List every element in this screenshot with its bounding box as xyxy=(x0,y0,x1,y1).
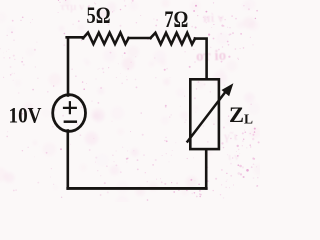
voltage source V circle xyxy=(53,95,86,132)
wire: left vertical top (from top-left corner down to source top) xyxy=(67,37,70,95)
ZL arrowhead xyxy=(222,84,232,95)
resistor R1 (5Ω zigzag) xyxy=(83,33,129,44)
wire: left vertical bottom (source bottom to bottom-left corner) xyxy=(67,131,70,189)
wire: R2 to top-right corner and down to ZL top xyxy=(195,39,207,78)
bleed-through text top-right xyxy=(60,1,239,163)
svg-text:5Ω: 5Ω xyxy=(87,3,111,28)
svg-text:от іо: от іо xyxy=(196,48,227,65)
load ZL rectangle xyxy=(190,79,219,149)
plus sign inside source xyxy=(64,102,76,113)
svg-text:иὶ ν: иὶ ν xyxy=(203,10,224,25)
svg-text:ττμ ν: ττμ ν xyxy=(60,1,84,13)
svg-text:γ῀ι: γ῀ι xyxy=(223,129,238,143)
wire: between R1 and R2 xyxy=(129,37,151,40)
resistor R2 (7Ω zigzag) xyxy=(151,33,196,44)
svg-text:ι ν: ι ν xyxy=(228,151,239,163)
wire: ZL bottom to bottom-right corner xyxy=(205,150,208,188)
svg-text:7Ω: 7Ω xyxy=(164,7,188,32)
wire: top-left horizontal to R1 xyxy=(67,36,83,40)
svg-text:10V: 10V xyxy=(9,102,42,127)
wire: bottom horizontal xyxy=(68,187,206,190)
minus sign inside source xyxy=(65,120,76,123)
ZL variable arrow shaft xyxy=(188,91,227,142)
